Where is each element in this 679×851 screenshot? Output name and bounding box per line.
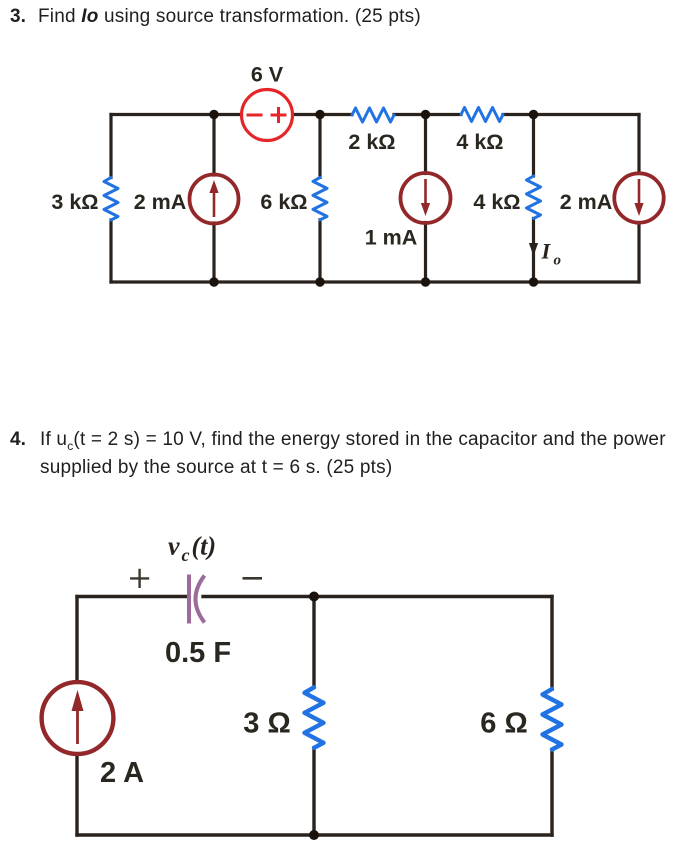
wire left edge upper bbox=[109, 115, 112, 178]
svg-text:3 Ω: 3 Ω bbox=[243, 708, 290, 740]
wire 6k branch lower bbox=[318, 220, 321, 282]
resistor 6 kOhm bbox=[313, 177, 327, 220]
wire left edge upper bbox=[75, 597, 78, 683]
wire top rail left segment bbox=[111, 113, 242, 116]
current source 2 A (arrow up) bbox=[42, 682, 114, 754]
svg-text:2 mA: 2 mA bbox=[134, 190, 187, 214]
node F (bottom, 6k branch) bbox=[315, 277, 324, 286]
wire bottom rail bbox=[111, 280, 639, 283]
wire top rail right segment bbox=[503, 113, 639, 116]
wire 6k branch upper bbox=[318, 115, 321, 178]
svg-text:2 mA: 2 mA bbox=[560, 190, 613, 214]
svg-text:1 mA: 1 mA bbox=[365, 226, 418, 250]
label capacitor minus sign bbox=[243, 577, 263, 580]
svg-text:2 kΩ: 2 kΩ bbox=[348, 130, 395, 154]
current source 2 mA (right, arrow down) bbox=[614, 173, 663, 222]
wire middle branch upper bbox=[312, 597, 315, 688]
current source 1 mA (arrow down) bbox=[401, 173, 451, 223]
wire left edge lower bbox=[109, 220, 112, 282]
node J (top middle) bbox=[309, 592, 319, 602]
wire 4k branch lower bbox=[532, 219, 535, 283]
resistor 2 kOhm (horizontal) bbox=[352, 108, 394, 122]
svg-text:o: o bbox=[554, 253, 562, 269]
node K (bottom middle) bbox=[309, 830, 319, 840]
label vc(t) bbox=[168, 532, 216, 566]
svg-text:0.5 F: 0.5 F bbox=[165, 637, 231, 669]
resistor 6 Ohm bbox=[543, 689, 562, 750]
node B (top, 6k branch) bbox=[315, 110, 324, 119]
resistor 3 kOhm (left edge) bbox=[104, 178, 118, 221]
wire right edge upper bbox=[637, 115, 640, 174]
wire right edge upper bbox=[550, 597, 553, 690]
resistor 4 kOhm (horizontal) bbox=[461, 108, 503, 122]
node E (bottom, 2mA branch) bbox=[209, 277, 218, 286]
wire left edge lower bbox=[75, 754, 78, 836]
wire right edge lower bbox=[550, 750, 553, 836]
wire right edge lower bbox=[637, 223, 640, 283]
node A (top, 2mA branch) bbox=[209, 110, 218, 119]
voltage source 6 V bbox=[242, 90, 293, 141]
resistor 3 Ohm bbox=[305, 687, 324, 748]
current source 2 mA (left, arrow up) bbox=[190, 175, 239, 224]
capacitor 0.5 F bbox=[189, 575, 205, 624]
svg-text:(t): (t) bbox=[192, 532, 217, 561]
resistor 4 kOhm (vertical) bbox=[527, 176, 541, 219]
svg-text:4 kΩ: 4 kΩ bbox=[473, 190, 520, 214]
svg-text:3 kΩ: 3 kΩ bbox=[51, 190, 98, 214]
wire 1mA branch lower bbox=[424, 223, 427, 283]
current arrow Io bbox=[529, 232, 538, 256]
node H (bottom, 4k branch) bbox=[529, 277, 538, 286]
svg-text:2 A: 2 A bbox=[100, 757, 144, 789]
node D (top, 4k branch) bbox=[529, 110, 538, 119]
wire 2mA branch upper bbox=[212, 115, 215, 176]
wire top rail between 2k and 4k resistors bbox=[394, 113, 461, 116]
svg-text:6 V: 6 V bbox=[251, 63, 284, 87]
label capacitor plus sign bbox=[130, 569, 149, 588]
problem 3 heading bbox=[10, 6, 26, 28]
svg-text:c: c bbox=[182, 545, 190, 565]
wire 4k branch upper bbox=[532, 115, 535, 177]
wire 1mA branch upper bbox=[424, 115, 427, 174]
wire middle branch lower bbox=[312, 748, 315, 835]
svg-text:v: v bbox=[168, 532, 180, 561]
svg-text:6 kΩ: 6 kΩ bbox=[260, 190, 307, 214]
wire 2mA branch lower bbox=[212, 223, 215, 282]
wire top rail between 6V source and 2k resistor bbox=[293, 113, 353, 116]
wire top rail right of capacitor bbox=[203, 595, 552, 598]
svg-text:I: I bbox=[541, 239, 552, 264]
svg-text:6 Ω: 6 Ω bbox=[480, 708, 527, 740]
wire bottom rail bbox=[77, 833, 552, 836]
node G (bottom, 1mA branch) bbox=[421, 277, 430, 286]
svg-text:4 kΩ: 4 kΩ bbox=[456, 130, 503, 154]
wire top rail left of capacitor bbox=[77, 595, 187, 598]
node C (top, 1mA branch) bbox=[421, 110, 430, 119]
problem 4 heading bbox=[10, 429, 26, 451]
